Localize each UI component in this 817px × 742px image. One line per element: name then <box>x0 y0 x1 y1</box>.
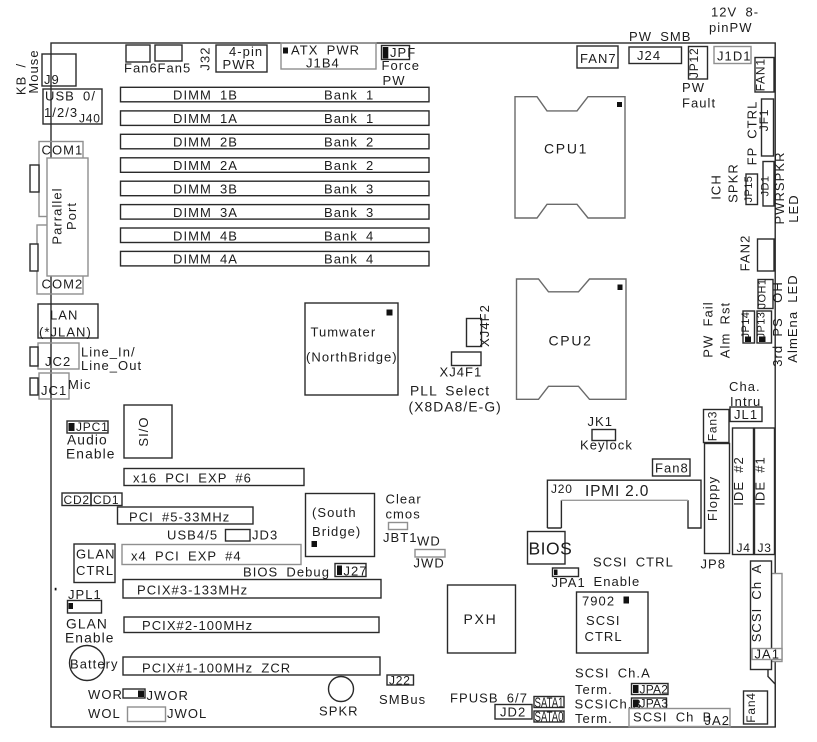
svg-text:JP12: JP12 <box>687 48 701 79</box>
connector JC1 Mic <box>30 373 91 399</box>
connector J27 BIOS Debug <box>243 564 368 580</box>
svg-text:Term.: Term. <box>575 711 613 726</box>
jumper JWOR WOR <box>88 687 189 703</box>
svg-text:Fan4: Fan4 <box>744 692 758 723</box>
jumper XJ4F1 PLL Select <box>409 352 502 415</box>
svg-text:(X8DA8/E-G): (X8DA8/E-G) <box>409 400 502 415</box>
slot x4 PCI EXP #4 <box>122 545 301 565</box>
svg-text:JPA1: JPA1 <box>552 575 586 590</box>
node ICH SPKR <box>709 163 741 203</box>
svg-text:Port: Port <box>64 202 79 230</box>
connector J24 <box>629 47 682 64</box>
svg-text:JWOL: JWOL <box>167 706 207 721</box>
svg-text:DIMM 1A: DIMM 1A <box>173 111 238 126</box>
svg-text:Enable: Enable <box>594 574 641 589</box>
svg-text:Parrallel: Parrallel <box>50 187 65 244</box>
svg-text:PCI #5-33MHz: PCI #5-33MHz <box>129 510 230 525</box>
battery <box>70 646 119 681</box>
svg-text:Bank 4: Bank 4 <box>324 228 374 243</box>
svg-text:Bank 2: Bank 2 <box>324 135 374 150</box>
connector LAN (*JLAN) <box>38 304 98 340</box>
svg-text:GLAN: GLAN <box>66 617 108 632</box>
svg-text:PXH: PXH <box>464 611 498 627</box>
svg-text:J9: J9 <box>44 72 60 87</box>
svg-text:COM1: COM1 <box>42 143 84 158</box>
connector JA1 label box <box>752 647 782 662</box>
svg-text:DIMM 4A: DIMM 4A <box>173 252 238 267</box>
svg-text:PCIX#1-100MHz ZCR: PCIX#1-100MHz ZCR <box>142 661 291 676</box>
svg-text:J24: J24 <box>637 48 661 63</box>
svg-text:SCSI Ch A: SCSI Ch A <box>749 564 764 643</box>
slot PCI #5-33MHz <box>118 507 254 525</box>
svg-text:J27: J27 <box>344 564 368 579</box>
svg-text:JWD: JWD <box>414 556 445 571</box>
connector COM2 <box>37 225 83 294</box>
connector JD3 USB4/5 <box>167 528 278 543</box>
svg-text:LAN: LAN <box>50 308 78 323</box>
wire SCSI ChA to board edge <box>768 670 775 728</box>
svg-text:J1B4: J1B4 <box>306 56 340 71</box>
jumper JK1 Keylock <box>580 414 633 453</box>
svg-text:SMBus: SMBus <box>379 692 426 707</box>
fan header FAN2 <box>738 235 775 272</box>
connector JD2 FPUSB 6/7 <box>450 691 532 720</box>
svg-text:PWR: PWR <box>223 57 256 72</box>
svg-text:Enable: Enable <box>66 447 116 462</box>
svg-text:JWOR: JWOR <box>147 688 189 703</box>
jumper JPA1 SCSI CTRL Enable <box>552 555 674 591</box>
svg-text:Clear: Clear <box>386 492 422 507</box>
DIMM slot 4A <box>121 251 430 266</box>
svg-text:SI/O: SI/O <box>136 416 151 446</box>
svg-text:J22: J22 <box>389 674 411 688</box>
svg-text:OH: OH <box>770 281 785 303</box>
svg-text:BIOS: BIOS <box>529 539 573 559</box>
node PWRSPKR LED <box>772 151 801 224</box>
svg-text:BIOS Debug: BIOS Debug <box>243 565 330 580</box>
connector J9 <box>42 54 76 87</box>
svg-text:JK1: JK1 <box>588 414 614 429</box>
slot PCIX#1-100MHz ZCR <box>123 657 380 676</box>
svg-text:Bank 1: Bank 1 <box>324 111 374 126</box>
jumper JP14 <box>740 311 755 343</box>
svg-text:Bank 1: Bank 1 <box>324 88 374 103</box>
jumper XJ4F2 <box>467 304 493 347</box>
svg-text:Bank 2: Bank 2 <box>324 158 374 173</box>
svg-text:7902: 7902 <box>582 594 615 609</box>
svg-text:CPU2: CPU2 <box>549 333 593 349</box>
svg-text:J3: J3 <box>758 541 772 555</box>
svg-text:Fault: Fault <box>682 96 716 111</box>
fan header Fan5 <box>155 45 191 76</box>
svg-text:SCSI Ch.A: SCSI Ch.A <box>575 666 651 681</box>
jumper JD1 <box>760 162 775 207</box>
svg-text:(South: (South <box>312 505 357 520</box>
DIMM slot 3B <box>121 181 430 196</box>
svg-text:Battery: Battery <box>70 657 119 672</box>
svg-text:pinPW: pinPW <box>709 20 753 35</box>
svg-text:JD3: JD3 <box>252 528 278 543</box>
slot x16 PCI EXP #6 <box>124 469 304 486</box>
svg-text:Fan8: Fan8 <box>655 461 689 476</box>
chip 7902 SCSI CTRL <box>577 592 649 653</box>
connector J32 4-pin PWR <box>198 44 268 72</box>
svg-text:JP15: JP15 <box>743 176 755 203</box>
svg-text:XJ4F1: XJ4F1 <box>440 365 483 380</box>
svg-text:x4 PCI EXP #4: x4 PCI EXP #4 <box>131 549 242 564</box>
chip PXH <box>448 585 516 653</box>
svg-text:3rd PS: 3rd PS <box>770 317 785 367</box>
socket CPU2 <box>517 279 627 399</box>
svg-text:JC1: JC1 <box>41 383 67 398</box>
jumper JWD WD <box>414 534 446 571</box>
connector ATX PWR J1B4 <box>281 43 376 71</box>
svg-text:DIMM 2B: DIMM 2B <box>173 135 238 150</box>
svg-text:XJ4F2: XJ4F2 <box>477 304 492 347</box>
svg-text:J20: J20 <box>551 482 573 496</box>
svg-text:Mic: Mic <box>68 377 91 392</box>
svg-text:J40: J40 <box>79 112 101 126</box>
slot PCIX#3-133MHz <box>123 580 381 599</box>
svg-text:Tumwater: Tumwater <box>311 325 377 340</box>
svg-text:CTRL: CTRL <box>76 563 114 578</box>
connector JF1 FP CTRL <box>745 99 774 165</box>
svg-text:FPUSB 6/7: FPUSB 6/7 <box>450 691 528 706</box>
connector SCSI Ch B JA2 <box>629 709 730 729</box>
svg-text:WOL: WOL <box>88 706 121 721</box>
svg-text:WD: WD <box>417 534 441 549</box>
svg-text:1/2/3: 1/2/3 <box>44 105 78 120</box>
svg-text:J32: J32 <box>198 46 213 70</box>
fan header FAN1 <box>754 58 775 93</box>
stray pad dot <box>55 588 57 591</box>
fan header Fan3 <box>704 410 730 443</box>
svg-text:Enable: Enable <box>65 631 115 646</box>
DIMM slot 3A <box>121 205 430 220</box>
slot J20 IPMI 2.0 <box>547 480 701 528</box>
svg-text:USB 0/: USB 0/ <box>45 89 96 104</box>
fan header Fan4 <box>744 691 768 724</box>
jumper JPL1 GLAN Enable <box>65 587 115 646</box>
svg-text:PW: PW <box>383 73 406 88</box>
svg-text:GLAN: GLAN <box>76 547 116 562</box>
connector JL1 <box>730 407 762 422</box>
parallel port <box>47 158 88 276</box>
svg-text:JP8: JP8 <box>701 557 727 572</box>
COM1 tab <box>30 165 39 192</box>
fan header FAN7 <box>577 46 618 68</box>
node Cha. Intru <box>729 379 761 409</box>
connector IDE #2 / J4 <box>731 428 754 555</box>
svg-text:SCSI CTRL: SCSI CTRL <box>593 555 674 570</box>
svg-text:(*JLAN): (*JLAN) <box>39 325 92 340</box>
svg-text:ICH: ICH <box>709 174 724 200</box>
chip Tumwater NorthBridge <box>305 303 398 395</box>
svg-text:JD1: JD1 <box>760 176 772 197</box>
jumper JOH1 <box>757 279 774 309</box>
DIMM slot 1B <box>121 87 430 102</box>
fan header Fan6 <box>124 45 158 76</box>
svg-text:Audio: Audio <box>67 433 108 448</box>
COM2 tab <box>30 244 38 271</box>
svg-text:CD1: CD1 <box>93 493 119 507</box>
speaker SPKR <box>319 677 359 719</box>
chip GLAN CTRL <box>74 544 116 583</box>
svg-text:SPKR: SPKR <box>319 704 359 719</box>
svg-text:Alm Rst: Alm Rst <box>718 302 733 358</box>
svg-text:Mouse: Mouse <box>26 49 41 93</box>
svg-text:Floppy: Floppy <box>705 476 720 521</box>
svg-text:FAN2: FAN2 <box>738 235 753 272</box>
svg-text:JOH1: JOH1 <box>757 279 769 309</box>
svg-text:Bridge): Bridge) <box>312 524 361 539</box>
svg-text:Bank 4: Bank 4 <box>324 252 374 267</box>
svg-text:CPU1: CPU1 <box>544 141 588 157</box>
svg-text:JBT1: JBT1 <box>383 530 418 545</box>
DIMM slot 2A <box>121 158 430 173</box>
svg-text:JP13: JP13 <box>756 312 768 339</box>
DIMM slot 2B <box>121 134 430 149</box>
svg-text:SPKR: SPKR <box>726 163 741 203</box>
svg-text:WOR: WOR <box>88 687 123 702</box>
svg-text:DIMM 1B: DIMM 1B <box>173 88 238 103</box>
jumper JP12 PW Fault <box>682 47 716 111</box>
svg-text:COM2: COM2 <box>42 277 84 292</box>
svg-text:Bank 3: Bank 3 <box>324 205 374 220</box>
svg-text:IDE #1: IDE #1 <box>753 456 768 506</box>
svg-text:(NorthBridge): (NorthBridge) <box>306 350 398 365</box>
connector CD1 <box>91 493 122 507</box>
connector J1D1 <box>714 47 752 64</box>
svg-text:12V 8-: 12V 8- <box>711 5 759 20</box>
svg-text:Bank 3: Bank 3 <box>324 182 374 197</box>
chip BIOS <box>528 532 573 565</box>
fan header Fan8 <box>653 459 691 476</box>
connector JC2 Line_In/Line_Out <box>30 343 142 373</box>
svg-text:PW: PW <box>682 80 705 95</box>
svg-text:J4: J4 <box>737 541 751 555</box>
svg-text:SATA0: SATA0 <box>535 709 564 726</box>
svg-text:Fan3: Fan3 <box>706 411 720 442</box>
connector J22 SMBus <box>379 674 426 708</box>
svg-text:JA1: JA1 <box>755 647 781 662</box>
connector J40 USB 0/1/2/3 <box>43 89 102 126</box>
svg-text:JF1: JF1 <box>757 109 771 131</box>
svg-text:JPL1: JPL1 <box>68 587 102 602</box>
jumper JPF Force PW <box>382 45 420 88</box>
svg-text:JC2: JC2 <box>45 354 71 369</box>
svg-text:JA2: JA2 <box>705 713 731 728</box>
svg-text:JL1: JL1 <box>734 407 758 422</box>
svg-text:PWRSPKR: PWRSPKR <box>772 151 787 224</box>
connector SCSI Ch A JA1 <box>749 561 772 670</box>
connector Floppy <box>705 444 730 554</box>
svg-text:Term.: Term. <box>575 682 613 697</box>
svg-text:IPMI 2.0: IPMI 2.0 <box>585 483 649 500</box>
connector JWOL WOL <box>88 706 207 722</box>
svg-text:x16 PCI EXP #6: x16 PCI EXP #6 <box>133 471 252 486</box>
svg-text:Fan6: Fan6 <box>124 61 158 76</box>
svg-text:CTRL: CTRL <box>585 629 623 644</box>
svg-text:DIMM 2A: DIMM 2A <box>173 158 238 173</box>
svg-text:JPA2: JPA2 <box>640 683 669 697</box>
connector SCSI Ch A bulge <box>772 574 783 662</box>
svg-text:FAN7: FAN7 <box>580 51 617 66</box>
DIMM slot 1A <box>121 111 430 126</box>
svg-text:Force: Force <box>382 58 420 73</box>
svg-text:Fan5: Fan5 <box>158 61 192 76</box>
jumper JPC1 Audio Enable <box>66 420 116 462</box>
connector SATA0 <box>534 709 564 726</box>
svg-text:PLL Select: PLL Select <box>410 384 490 399</box>
svg-text:SCSI: SCSI <box>586 613 621 628</box>
connector CD2 <box>62 493 91 507</box>
socket CPU1 <box>515 97 625 218</box>
connector COM1 <box>39 142 83 217</box>
slot PCIX#2-100MHz <box>124 617 379 633</box>
node OH LED <box>770 274 800 362</box>
svg-text:LED: LED <box>786 194 801 222</box>
node KB/Mouse label <box>14 49 42 95</box>
svg-text:DIMM 3A: DIMM 3A <box>173 205 238 220</box>
svg-text:PW SMB: PW SMB <box>629 29 692 44</box>
chip South Bridge <box>306 494 375 557</box>
jumper JP13 <box>756 311 772 343</box>
svg-text:FAN1: FAN1 <box>754 58 768 91</box>
svg-text:PW Fail: PW Fail <box>701 301 716 357</box>
svg-text:cmos: cmos <box>386 507 421 522</box>
jumper JBT1 Clear cmos <box>383 492 422 546</box>
node SCSI Ch.A Term. <box>575 666 651 698</box>
svg-text:DIMM 3B: DIMM 3B <box>173 182 238 197</box>
jumper JP15 <box>743 174 758 205</box>
connector IDE #1 / J3 <box>753 428 775 555</box>
svg-text:PCIX#3-133MHz: PCIX#3-133MHz <box>137 583 248 598</box>
node 12V 8-pin PW <box>709 5 759 36</box>
svg-text:USB4/5: USB4/5 <box>167 528 218 543</box>
svg-text:J1D1: J1D1 <box>717 49 752 64</box>
svg-text:IDE #2: IDE #2 <box>731 456 746 506</box>
svg-text:Keylock: Keylock <box>580 438 633 453</box>
connector SATA1 <box>534 695 564 712</box>
svg-text:Cha.: Cha. <box>729 379 761 394</box>
node PW Fail Alm Rst <box>701 301 733 358</box>
svg-text:SCSI Ch B: SCSI Ch B <box>633 710 712 725</box>
svg-text:Line_Out: Line_Out <box>81 358 142 373</box>
svg-text:PCIX#2-100MHz: PCIX#2-100MHz <box>142 618 253 633</box>
DIMM slot 4B <box>121 228 430 243</box>
svg-text:JD2: JD2 <box>500 705 526 720</box>
svg-text:DIMM 4B: DIMM 4B <box>173 228 238 243</box>
svg-text:JP14: JP14 <box>740 312 752 339</box>
jumper JPA2 <box>632 683 669 697</box>
jumper JPA3 <box>632 697 669 711</box>
chip SI/O <box>124 405 172 458</box>
svg-text:CD2: CD2 <box>64 493 90 507</box>
svg-text:AlmEna LED: AlmEna LED <box>785 274 800 362</box>
